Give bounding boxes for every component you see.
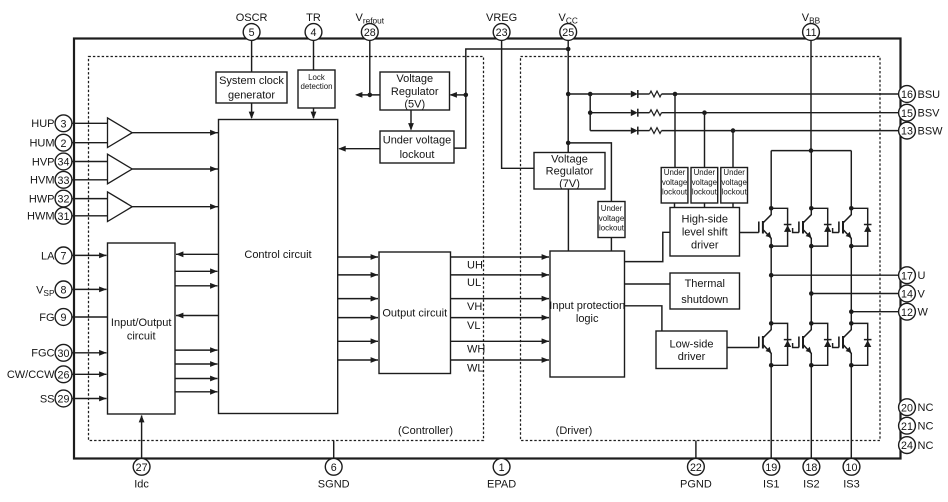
diode freewheel DQL3 bbox=[851, 323, 871, 365]
label input/output circuit bbox=[111, 317, 172, 343]
svg-text:12: 12 bbox=[901, 307, 913, 319]
svg-text:BSW: BSW bbox=[918, 125, 944, 137]
svg-text:HVM: HVM bbox=[30, 175, 54, 187]
wire pin HVP to comparator bbox=[72, 161, 108, 163]
transistor QL1 bbox=[759, 323, 772, 365]
svg-text:level shift: level shift bbox=[682, 227, 728, 239]
svg-text:SS: SS bbox=[40, 393, 55, 405]
op-amp hall comparator A1 bbox=[108, 118, 133, 148]
wire rail 2 mid bbox=[810, 246, 812, 323]
svg-text:(7V): (7V) bbox=[559, 178, 580, 190]
svg-text:1: 1 bbox=[499, 462, 505, 474]
svg-text:shutdown: shutdown bbox=[681, 294, 728, 306]
node QH2 collector bbox=[809, 206, 814, 211]
wire input protection to low-side bbox=[625, 306, 662, 331]
svg-text:SGND: SGND bbox=[318, 478, 350, 490]
diode freewheel DQH1 bbox=[771, 208, 791, 246]
wire QH2 gate stub bbox=[793, 228, 799, 233]
wire WL output to input protection bbox=[451, 357, 550, 363]
pin 29 SS bbox=[40, 390, 72, 407]
svg-text:WH: WH bbox=[467, 344, 485, 356]
transistor QH3 bbox=[839, 208, 852, 246]
wire bootstrap row BSU bbox=[568, 93, 631, 95]
diode bootstrap BSV bbox=[631, 109, 638, 116]
svg-text:Under: Under bbox=[694, 168, 716, 177]
wire control to output circuit 3 bbox=[338, 296, 378, 302]
node QH1 collector bbox=[769, 206, 774, 211]
pin 8 VSP bbox=[36, 281, 72, 298]
svg-text:Idc: Idc bbox=[134, 478, 149, 490]
svg-text:Lock: Lock bbox=[308, 73, 325, 82]
svg-text:NC: NC bbox=[918, 421, 934, 433]
svg-text:15: 15 bbox=[901, 108, 913, 120]
pin 12 W bbox=[899, 303, 929, 320]
pin 4 TR bbox=[305, 12, 322, 41]
wire pin HVM to comparator bbox=[72, 179, 108, 181]
svg-text:3: 3 bbox=[61, 118, 67, 130]
node QL1 emitter bbox=[769, 363, 774, 368]
svg-text:(Driver): (Driver) bbox=[556, 425, 593, 437]
svg-text:Input protection: Input protection bbox=[549, 300, 625, 312]
pin 9 FG bbox=[39, 309, 72, 326]
pin 31 HWM bbox=[27, 207, 72, 224]
node VBB rail junction bbox=[809, 148, 814, 153]
svg-text:14: 14 bbox=[901, 289, 913, 301]
wire Idc to I/O circuit bbox=[139, 415, 145, 458]
block voltage regulator 5V U-REG5 bbox=[380, 72, 450, 111]
svg-text:FG: FG bbox=[39, 312, 54, 324]
block under voltage lockout U-UVL3 bbox=[661, 168, 688, 204]
pin 28 Vrefout bbox=[356, 12, 385, 41]
svg-text:11: 11 bbox=[805, 27, 816, 39]
svg-text:System clock: System clock bbox=[219, 75, 284, 87]
wire BSV branch to UVL2 bbox=[704, 113, 706, 168]
svg-text:24: 24 bbox=[901, 440, 913, 452]
svg-text:Under: Under bbox=[601, 204, 623, 213]
wire rail 1 top bbox=[770, 151, 772, 209]
pin 24 NC bbox=[899, 437, 934, 454]
svg-text:16: 16 bbox=[901, 89, 913, 101]
wire pin FGC to I/O circuit bbox=[72, 350, 107, 356]
node VCC bootstrap branch bbox=[566, 92, 571, 97]
wire input protection to high-side bbox=[625, 232, 671, 261]
node QH3 collector bbox=[849, 206, 854, 211]
node phase U junction bbox=[769, 273, 774, 278]
svg-text:lockout: lockout bbox=[662, 187, 688, 196]
svg-text:Input/Output: Input/Output bbox=[111, 317, 172, 329]
svg-text:27: 27 bbox=[136, 462, 148, 474]
svg-text:detection: detection bbox=[300, 82, 332, 91]
wire VBB stem bbox=[810, 40, 812, 151]
block thermal shutdown U-TSD bbox=[670, 273, 740, 309]
svg-text:Voltage: Voltage bbox=[551, 153, 588, 165]
svg-text:Under: Under bbox=[664, 168, 686, 177]
svg-text:(5V): (5V) bbox=[404, 99, 425, 111]
svg-text:BSV: BSV bbox=[918, 108, 941, 120]
wire pin LA to I/O circuit bbox=[72, 253, 107, 259]
svg-text:10: 10 bbox=[846, 462, 858, 474]
wire control to I/O 1 bbox=[176, 251, 219, 257]
wire QH3 gate stub bbox=[833, 228, 839, 233]
node BSU branch bbox=[673, 92, 678, 97]
wire QL2 gate stub bbox=[793, 343, 799, 348]
svg-text:Under voltage: Under voltage bbox=[383, 135, 452, 147]
wire UH output to input protection bbox=[451, 254, 550, 260]
svg-text:20: 20 bbox=[901, 402, 913, 414]
wire comparator A1 output to control bbox=[132, 130, 218, 136]
driver section dashed boundary bbox=[521, 57, 881, 441]
wire TR stem bbox=[313, 40, 315, 70]
pin 14 V bbox=[899, 285, 926, 302]
wire phase V output bbox=[811, 293, 899, 295]
svg-text:34: 34 bbox=[58, 157, 70, 169]
wire bootstrap row BSV bbox=[590, 112, 631, 114]
wire pin HUM to comparator bbox=[72, 142, 108, 144]
svg-text:17: 17 bbox=[901, 270, 913, 282]
svg-text:31: 31 bbox=[58, 211, 70, 223]
svg-text:UH: UH bbox=[467, 259, 483, 271]
svg-text:32: 32 bbox=[58, 194, 70, 206]
pin 5 OSCR bbox=[236, 12, 268, 41]
svg-text:26: 26 bbox=[58, 369, 70, 381]
resistor bootstrap BSV bbox=[650, 110, 662, 116]
node QL1 collector bbox=[769, 321, 774, 326]
diode bootstrap BSW bbox=[631, 127, 638, 134]
svg-text:WL: WL bbox=[467, 362, 484, 374]
wire rail 1 to IS1 pin bbox=[770, 365, 772, 457]
node QL3 collector bbox=[849, 321, 854, 326]
svg-text:logic: logic bbox=[576, 313, 599, 325]
svg-text:13: 13 bbox=[901, 126, 913, 138]
wire control to output circuit 2 bbox=[338, 272, 378, 278]
pin 16 BSU bbox=[899, 86, 941, 103]
wire VCC to 5V regulator and UVL bbox=[454, 49, 568, 148]
wire BSW branch to UVL3 bbox=[732, 131, 734, 168]
wire input protection to thermal shutdown bbox=[625, 283, 671, 285]
svg-text:IS1: IS1 bbox=[763, 478, 780, 490]
block under voltage lockout U-UVL4 bbox=[691, 168, 718, 204]
svg-text:TR: TR bbox=[306, 12, 321, 24]
wire I/O to control 5 bbox=[175, 347, 218, 353]
wire pin HWP to comparator bbox=[72, 198, 108, 200]
svg-text:W: W bbox=[918, 307, 929, 319]
block under voltage lockout U-UVL1 bbox=[380, 131, 454, 163]
wire bootstrap row BSW bbox=[590, 130, 631, 132]
svg-text:IS2: IS2 bbox=[803, 478, 820, 490]
svg-text:5: 5 bbox=[249, 27, 255, 39]
svg-text:U: U bbox=[918, 270, 926, 282]
node phase V junction bbox=[809, 291, 814, 296]
svg-text:Regulator: Regulator bbox=[546, 166, 594, 178]
pin 33 HVM bbox=[30, 171, 72, 188]
svg-text:6: 6 bbox=[331, 462, 337, 474]
node QL2 collector bbox=[809, 321, 814, 326]
svg-text:VREG: VREG bbox=[486, 12, 517, 24]
block low-side driver U-LS bbox=[656, 331, 727, 369]
block under voltage lockout U-UVL2 bbox=[598, 202, 625, 238]
IC outer boundary bbox=[74, 39, 901, 459]
wire BSV diode to resistor bbox=[638, 112, 650, 114]
wire 5V regulator to UVL bbox=[408, 110, 414, 131]
wire pin CW/CCW to I/O circuit bbox=[72, 371, 107, 377]
svg-text:Regulator: Regulator bbox=[391, 86, 439, 98]
block input/output circuit U-IO bbox=[108, 243, 176, 414]
pin 25 VCC bbox=[559, 12, 578, 41]
svg-text:2: 2 bbox=[61, 138, 67, 150]
node BSW branch bbox=[731, 128, 736, 133]
wire rail 3 to IS3 pin bbox=[850, 365, 852, 457]
svg-text:voltage: voltage bbox=[721, 178, 747, 187]
svg-text:NC: NC bbox=[918, 440, 934, 452]
svg-text:HWM: HWM bbox=[27, 211, 55, 223]
wire phase W output bbox=[851, 311, 899, 313]
svg-text:voltage: voltage bbox=[662, 178, 688, 187]
svg-text:22: 22 bbox=[690, 462, 702, 474]
pin 23 VREG bbox=[486, 12, 517, 41]
diode bootstrap BSU bbox=[631, 91, 638, 98]
op-amp hall comparator A3 bbox=[108, 192, 133, 222]
wire BSU branch to UVL1 bbox=[674, 94, 676, 168]
wire Vrefout stem bbox=[369, 40, 371, 95]
wire rail 1 mid bbox=[770, 246, 772, 323]
svg-text:23: 23 bbox=[496, 27, 508, 39]
wire pin VSP to I/O circuit bbox=[72, 287, 107, 293]
svg-text:LA: LA bbox=[41, 250, 55, 262]
svg-text:voltage: voltage bbox=[599, 214, 625, 223]
wire UVL3 to high-side driver bbox=[732, 203, 734, 208]
wire rail 2 to IS2 pin bbox=[810, 365, 812, 457]
svg-text:circuit: circuit bbox=[127, 330, 156, 342]
svg-text:19: 19 bbox=[765, 462, 777, 474]
svg-text:Output circuit: Output circuit bbox=[382, 308, 447, 320]
svg-text:lockout: lockout bbox=[722, 187, 748, 196]
svg-text:Thermal: Thermal bbox=[685, 278, 725, 290]
pin 20 NC bbox=[899, 399, 934, 416]
wire VH output to input protection bbox=[451, 296, 550, 302]
pin 18 IS2 bbox=[803, 458, 820, 490]
svg-text:lockout: lockout bbox=[692, 187, 718, 196]
svg-text:generator: generator bbox=[228, 90, 275, 102]
svg-text:28: 28 bbox=[364, 27, 376, 39]
svg-text:lockout: lockout bbox=[400, 149, 435, 161]
svg-text:9: 9 bbox=[61, 312, 67, 324]
wire QL3 gate stub bbox=[833, 343, 839, 348]
svg-text:BSU: BSU bbox=[918, 89, 941, 101]
wire VCC to driver UVL bbox=[568, 143, 611, 202]
svg-text:NC: NC bbox=[918, 402, 934, 414]
svg-text:V: V bbox=[918, 288, 926, 300]
block lock detection U-LD bbox=[298, 70, 335, 108]
transistor QL2 bbox=[799, 323, 812, 365]
pin 3 HUP bbox=[31, 115, 72, 132]
svg-text:FGC: FGC bbox=[31, 348, 54, 360]
pin 2 HUM bbox=[29, 134, 71, 151]
wire rail 3 top bbox=[850, 151, 852, 209]
svg-text:(Controller): (Controller) bbox=[398, 425, 453, 437]
svg-text:driver: driver bbox=[691, 240, 719, 252]
wire BSU diode to resistor bbox=[638, 93, 650, 95]
wire VREG feed to 7V regulator bbox=[502, 40, 534, 168]
wire control to output circuit 5 bbox=[338, 338, 378, 344]
wire pin HWM to comparator bbox=[72, 215, 108, 217]
svg-text:VL: VL bbox=[467, 320, 480, 332]
wire rail 3 mid bbox=[850, 246, 852, 323]
block under voltage lockout U-UVL5 bbox=[721, 168, 748, 204]
node VCC branch to 5V path bbox=[566, 47, 571, 52]
pin 26 CW/CCW bbox=[7, 366, 72, 383]
pin 6 SGND bbox=[318, 458, 350, 490]
resistor bootstrap BSW bbox=[650, 128, 662, 134]
block output circuit U-OUT bbox=[379, 252, 451, 374]
pin 21 NC bbox=[899, 417, 934, 434]
svg-text:33: 33 bbox=[58, 175, 70, 187]
pin 15 BSV bbox=[899, 104, 941, 121]
wire rail 2 top bbox=[810, 151, 812, 209]
resistor bootstrap BSU bbox=[650, 91, 662, 97]
pin 1 EPAD bbox=[487, 458, 516, 490]
wire comparator A2 output to control bbox=[132, 166, 218, 172]
pin 22 PGND bbox=[680, 458, 712, 490]
svg-text:OSCR: OSCR bbox=[236, 12, 268, 24]
pin 11 VBB bbox=[802, 12, 821, 41]
block voltage regulator 7V U-REG7 bbox=[534, 153, 605, 190]
svg-text:High-side: High-side bbox=[682, 214, 728, 226]
node BSV branch bbox=[702, 110, 707, 115]
wire 7V regulator to input protection bbox=[567, 189, 569, 251]
wire pin FG to I/O circuit bbox=[72, 316, 108, 318]
wire UL output to input protection bbox=[451, 272, 550, 278]
svg-text:CW/CCW: CW/CCW bbox=[7, 369, 55, 381]
pin 34 HVP bbox=[32, 153, 72, 170]
label input protection logic bbox=[549, 300, 625, 325]
node QH1 emitter bbox=[769, 244, 774, 249]
block control circuit U-CTRL bbox=[219, 120, 338, 414]
wire bootstrap feed down bbox=[589, 94, 591, 131]
node QH3 emitter bbox=[849, 244, 854, 249]
wire low-side driver to QL1 gate bbox=[727, 347, 759, 349]
svg-text:18: 18 bbox=[805, 462, 817, 474]
svg-text:Low-side: Low-side bbox=[669, 338, 713, 350]
wire I/O to control 3 bbox=[175, 283, 218, 289]
svg-text:PGND: PGND bbox=[680, 478, 712, 490]
wire WH output to input protection bbox=[451, 338, 550, 344]
svg-text:8: 8 bbox=[61, 285, 67, 297]
node QH2 emitter bbox=[809, 244, 814, 249]
controller section dashed boundary bbox=[89, 57, 484, 441]
node BSV feed junction bbox=[588, 110, 593, 115]
pin 32 HWP bbox=[29, 190, 72, 207]
svg-text:Under: Under bbox=[723, 168, 745, 177]
wire UVL1 to high-side driver bbox=[674, 203, 676, 208]
svg-text:HWP: HWP bbox=[29, 193, 55, 205]
wire lock detection to control bbox=[311, 108, 317, 119]
wire VCC stem bbox=[567, 40, 569, 153]
wire BSV row to pin bbox=[662, 112, 900, 114]
block system clock generator U-SCG bbox=[216, 72, 287, 103]
node 5V-regulator feed junction bbox=[464, 93, 469, 98]
svg-text:lockout: lockout bbox=[599, 223, 625, 232]
svg-text:4: 4 bbox=[311, 27, 317, 39]
svg-text:7: 7 bbox=[61, 251, 67, 263]
svg-text:HUP: HUP bbox=[31, 118, 54, 130]
wire system clock to control bbox=[249, 103, 255, 119]
wire Vrefout output bbox=[355, 92, 380, 98]
node QL2 emitter bbox=[809, 363, 814, 368]
wire driver UVL to input protection bbox=[610, 238, 612, 252]
wire SGND stem bbox=[333, 441, 335, 459]
transistor QH1 bbox=[759, 208, 772, 246]
node QL3 emitter bbox=[849, 363, 854, 368]
svg-text:30: 30 bbox=[58, 348, 70, 360]
diode freewheel DQL2 bbox=[811, 323, 831, 365]
svg-text:voltage: voltage bbox=[692, 178, 718, 187]
block high-side level shift driver U-HS bbox=[670, 208, 740, 257]
transistor QL3 bbox=[839, 323, 852, 365]
pin 17 U bbox=[899, 267, 926, 284]
diode freewheel DQH3 bbox=[851, 208, 871, 246]
wire high-side driver to QH1 gate bbox=[740, 232, 759, 234]
svg-text:Voltage: Voltage bbox=[396, 73, 433, 85]
op-amp hall comparator A2 bbox=[108, 154, 133, 184]
wire phase U output bbox=[771, 274, 899, 276]
wire pin SS to I/O circuit bbox=[72, 396, 107, 402]
wire control to output circuit 1 bbox=[338, 254, 378, 260]
wire OSCR stem bbox=[251, 40, 253, 72]
wire comparator A3 output to control bbox=[132, 204, 218, 210]
svg-text:Control circuit: Control circuit bbox=[244, 249, 311, 261]
pin 27 Idc bbox=[133, 458, 150, 490]
wire BSW diode to resistor bbox=[638, 130, 650, 132]
svg-text:29: 29 bbox=[58, 394, 70, 406]
svg-text:HUM: HUM bbox=[29, 138, 54, 150]
wire control to output circuit 4 bbox=[338, 315, 378, 321]
node VCC branch to driver UVL bbox=[566, 141, 571, 146]
diode freewheel DQL1 bbox=[771, 323, 791, 365]
wire control to output circuit 6 bbox=[338, 357, 378, 363]
wire high-side collector rail bbox=[771, 150, 851, 152]
node bootstrap feed split bbox=[588, 92, 593, 97]
wire BSU row to pin bbox=[662, 93, 900, 95]
wire I/O to control 2 bbox=[175, 268, 218, 274]
wire UVL2 to high-side driver bbox=[704, 203, 706, 208]
wire pin HUP to comparator bbox=[72, 122, 108, 124]
node Vrefout junction bbox=[368, 93, 373, 98]
wire PGND stem bbox=[695, 441, 697, 459]
pin 7 LA bbox=[41, 247, 72, 264]
wire UVL to control circuit bbox=[338, 146, 380, 152]
wire I/O to control 8 bbox=[175, 389, 218, 395]
svg-text:25: 25 bbox=[562, 27, 574, 39]
transistor QH2 bbox=[799, 208, 812, 246]
pin 10 IS3 bbox=[843, 458, 860, 490]
wire I/O to control 6 bbox=[175, 361, 218, 367]
wire I/O to control 7 bbox=[175, 376, 218, 382]
svg-text:EPAD: EPAD bbox=[487, 478, 516, 490]
svg-text:driver: driver bbox=[678, 351, 706, 363]
pin 19 IS1 bbox=[763, 458, 780, 490]
wire control to I/O 4 bbox=[176, 313, 219, 319]
svg-text:HVP: HVP bbox=[32, 156, 55, 168]
diode freewheel DQH2 bbox=[811, 208, 831, 246]
block input protection logic U-IPL bbox=[550, 251, 625, 377]
node phase W junction bbox=[849, 309, 854, 314]
wire VL output to input protection bbox=[451, 315, 550, 321]
svg-text:21: 21 bbox=[901, 421, 913, 433]
pin 30 FGC bbox=[31, 344, 72, 361]
wire BSW row to pin bbox=[662, 130, 900, 132]
wire into 5V regulator bbox=[450, 92, 466, 98]
pin 13 BSW bbox=[899, 122, 944, 139]
